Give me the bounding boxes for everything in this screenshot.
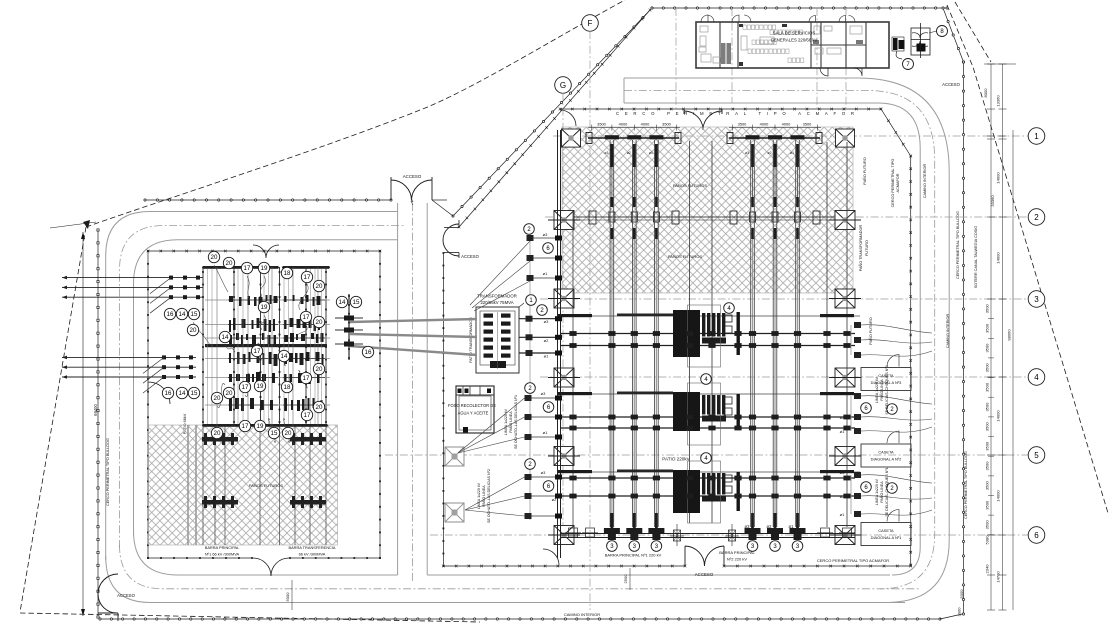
svg-text:PATIO 220kV: PATIO 220kV xyxy=(662,457,690,462)
svg-text:20: 20 xyxy=(190,327,197,334)
svg-text:3500: 3500 xyxy=(985,421,990,431)
building furniture xyxy=(700,26,708,32)
grid bubble 3 xyxy=(1028,291,1045,308)
gantry row2 posts xyxy=(609,212,615,222)
left yard bubbles xyxy=(208,251,219,262)
svg-text:PAÑO FUTURO: PAÑO FUTURO xyxy=(862,157,867,184)
svg-text:ø2: ø2 xyxy=(840,494,845,499)
svg-text:20: 20 xyxy=(214,395,221,402)
svg-text:CERCO PERIMETRAL TIPO ACMAFOR: CERCO PERIMETRAL TIPO ACMAFOR xyxy=(817,558,889,563)
svg-text:ø1: ø1 xyxy=(544,354,549,359)
left yard feeder taps group 1 xyxy=(62,277,203,279)
tower east col y456 xyxy=(835,447,855,466)
svg-text:ø1: ø1 xyxy=(649,151,653,155)
svg-text:17: 17 xyxy=(242,384,249,391)
svg-text:17: 17 xyxy=(303,314,310,321)
tower corridor row5b xyxy=(445,503,464,522)
svg-text:15: 15 xyxy=(191,390,198,397)
road top (north) inner edge xyxy=(624,103,920,575)
dimension top tick xyxy=(984,63,1016,65)
svg-text:4000: 4000 xyxy=(641,122,650,127)
road left ring inner edge xyxy=(134,240,398,535)
gridline row 6 xyxy=(430,534,1028,536)
svg-text:SE DELICIAS–CHOQUES Nº1: SE DELICIAS–CHOQUES Nº1 xyxy=(885,467,889,516)
svg-text:2500: 2500 xyxy=(623,574,628,584)
svg-text:5380: 5380 xyxy=(985,535,990,545)
tower east col y377.5 xyxy=(835,368,855,387)
svg-text:FOSO RECOLECTOR DE: FOSO RECOLECTOR DE xyxy=(448,403,496,408)
left yard hatch equipment row 1 xyxy=(202,437,238,442)
bubbles 3 under bays xyxy=(607,541,618,552)
svg-text:ACCESO: ACCESO xyxy=(461,254,479,259)
road middle corridor east edge xyxy=(426,203,428,575)
svg-text:3500: 3500 xyxy=(985,402,990,412)
svg-text:3500: 3500 xyxy=(597,122,606,127)
gantry row1 group B xyxy=(729,137,820,139)
grid bubble 4 xyxy=(1028,369,1045,386)
svg-text:20: 20 xyxy=(316,283,323,290)
bus node ticks row 455 xyxy=(608,476,615,481)
svg-text:SE DELICIAS–CHOQUES Nº3: SE DELICIAS–CHOQUES Nº3 xyxy=(885,365,889,414)
property boundary dashed bottom xyxy=(20,613,480,622)
svg-text:17: 17 xyxy=(244,265,251,272)
gate ACCESO west entrance xyxy=(98,574,118,613)
fence left yard (x markers) xyxy=(148,250,380,252)
svg-text:33360: 33360 xyxy=(990,195,995,207)
transformer LV taps to bus xyxy=(519,318,556,320)
grid bubble 2 xyxy=(1028,209,1045,226)
diameter row at grid 455 tie line xyxy=(558,471,860,473)
svg-text:CERCO PERIMETRAL TIPO BULLDOG: CERCO PERIMETRAL TIPO BULLDOG xyxy=(106,438,110,506)
feeder markers right group 2 xyxy=(854,472,861,478)
fence northeast diagonal (circles) xyxy=(453,8,652,216)
property boundary dashed northeast xyxy=(947,5,1108,513)
svg-text:16: 16 xyxy=(365,349,372,356)
svg-text:ø3: ø3 xyxy=(544,319,549,324)
left yard equipment rows xyxy=(205,299,330,301)
svg-text:ø2: ø2 xyxy=(627,151,631,155)
diameter row at grid 299 tie line xyxy=(558,315,860,317)
tower west col y377.5 xyxy=(554,368,574,387)
grid bubble 6 xyxy=(1028,527,1045,544)
svg-text:BARRA PRINCIPAL Nº1 220 kV: BARRA PRINCIPAL Nº1 220 kV xyxy=(605,553,662,558)
svg-text:ø3: ø3 xyxy=(840,391,845,396)
svg-text:17: 17 xyxy=(254,348,261,355)
svg-text:F: F xyxy=(588,19,593,28)
svg-text:14: 14 xyxy=(179,390,186,397)
svg-text:PAÑO LINEA: PAÑO LINEA xyxy=(508,411,513,433)
lattice column symbols row6 xyxy=(674,530,681,541)
dimension line right middle xyxy=(1002,64,1004,610)
left yard top bus xyxy=(203,266,278,269)
property boundary dashed west xyxy=(20,227,86,612)
svg-text:5000: 5000 xyxy=(285,592,290,602)
svg-text:LINEA 1x220 kV: LINEA 1x220 kV xyxy=(875,478,879,505)
building battery banks xyxy=(721,43,726,64)
foso top cells xyxy=(456,394,494,396)
fence south (circles) xyxy=(100,618,940,620)
left yard minor columns xyxy=(216,267,218,426)
svg-text:3500: 3500 xyxy=(803,122,812,127)
fence west (squares) xyxy=(97,230,99,617)
diameter row buses y333.5 345.5 xyxy=(560,333,855,335)
svg-text:14: 14 xyxy=(179,311,186,318)
svg-text:14: 14 xyxy=(339,299,346,306)
bubble 4 row3 xyxy=(724,303,735,314)
cluster outline row 455 xyxy=(688,461,721,523)
tower row1 west xyxy=(562,129,581,147)
tower corridor row5 xyxy=(445,447,464,466)
feeder markers right group 0 xyxy=(854,322,861,328)
bottom bay gantry bars xyxy=(611,513,614,538)
tower west col y298.5 xyxy=(554,289,574,308)
left yard middle heavy bus xyxy=(205,344,327,347)
svg-text:ø3: ø3 xyxy=(541,470,546,475)
svg-text:8000: 8000 xyxy=(983,88,988,98)
feeder group lower squares xyxy=(525,474,532,480)
tower west col y535 xyxy=(554,526,574,545)
svg-text:ACCESO: ACCESO xyxy=(117,593,135,598)
svg-text:3500: 3500 xyxy=(985,343,990,353)
svg-text:ø1: ø1 xyxy=(789,524,795,529)
svg-text:3500: 3500 xyxy=(985,500,990,510)
aux vertical lines right yard xyxy=(689,141,691,523)
svg-text:ø3: ø3 xyxy=(840,470,845,475)
svg-text:PAÑO LINEA: PAÑO LINEA xyxy=(879,379,884,401)
equipment symbol 8 xyxy=(911,28,930,55)
bubble 4 row4 xyxy=(701,374,712,385)
svg-text:3000: 3000 xyxy=(957,607,962,617)
hatch panos futuros right yard xyxy=(562,127,853,293)
svg-text:ACCESO: ACCESO xyxy=(942,82,960,87)
gate left yard top xyxy=(253,245,279,258)
svg-text:SE OCHATO–LAS DELICIAS Nº1: SE OCHATO–LAS DELICIAS Nº1 xyxy=(514,395,518,449)
gate right yard bottom ACCESO xyxy=(685,546,724,566)
svg-text:220/66kV 75MVA: 220/66kV 75MVA xyxy=(480,300,513,305)
svg-text:19: 19 xyxy=(261,265,268,272)
svg-text:4: 4 xyxy=(1034,373,1039,382)
property boundary dashed northwest diagonal xyxy=(86,0,625,227)
svg-text:GENERALES 220/66 kV: GENERALES 220/66 kV xyxy=(771,38,818,43)
gate ACCESO top of corridor xyxy=(391,180,432,201)
foso recolector box xyxy=(456,386,494,433)
diameter row at grid 377 tie line xyxy=(558,393,860,395)
svg-text:14: 14 xyxy=(222,334,229,341)
svg-text:20: 20 xyxy=(285,430,292,437)
gridline row 2 xyxy=(545,216,1028,218)
fence north (circles) xyxy=(652,7,947,9)
bottom small posts xyxy=(569,528,578,537)
svg-text:14700: 14700 xyxy=(996,571,1001,583)
bay vertical conductors xyxy=(609,140,611,527)
svg-text:PAÑOS FUTUROS: PAÑOS FUTUROS xyxy=(249,483,283,488)
dimension ticks bays group B xyxy=(729,127,821,129)
fence north of left yard (circles) xyxy=(145,199,391,201)
left yard leader squiggles xyxy=(214,265,228,292)
tower west col y456 xyxy=(554,447,574,466)
svg-text:ø3: ø3 xyxy=(604,151,608,155)
diameter row buses y478 496 xyxy=(560,477,855,479)
diameter tie segments row 299 xyxy=(558,314,592,317)
svg-text:ø3: ø3 xyxy=(745,524,751,529)
svg-text:14000: 14000 xyxy=(996,410,1001,422)
svg-text:17: 17 xyxy=(242,423,249,430)
gate left yard bottom xyxy=(253,558,289,576)
svg-text:66 kV /300MVA: 66 kV /300MVA xyxy=(299,552,326,557)
gridline vertical C xyxy=(816,8,818,110)
gridline G vertical xyxy=(562,93,564,540)
bubble 8 xyxy=(937,26,948,37)
dimension line right inner xyxy=(990,64,992,610)
svg-text:19: 19 xyxy=(257,423,264,430)
svg-text:PAÑO TRANSFORMADOR: PAÑO TRANSFORMADOR xyxy=(858,225,863,272)
road bottom centerline xyxy=(120,545,921,589)
svg-text:17: 17 xyxy=(304,274,311,281)
svg-text:3500: 3500 xyxy=(985,363,990,373)
bus node ticks row 377 xyxy=(608,415,615,420)
building interior wall xyxy=(811,44,866,46)
building chair rows xyxy=(743,25,746,30)
dimension 5000 bottom center xyxy=(291,580,293,610)
gridline F vertical xyxy=(589,31,591,610)
svg-text:FUTURO: FUTURO xyxy=(865,240,869,256)
diameter tie segments row 377 xyxy=(558,392,592,395)
svg-text:3500: 3500 xyxy=(985,323,990,333)
svg-text:5: 5 xyxy=(1034,451,1039,460)
road top/right centerline xyxy=(624,91,935,589)
svg-text:CERCO PERIMETRAL TIPO ACMAF: CERCO PERIMETRAL TIPO ACMAFOR xyxy=(616,111,854,116)
svg-text:3: 3 xyxy=(1034,295,1039,304)
svg-text:BARRA PRINCIPAL: BARRA PRINCIPAL xyxy=(719,550,755,555)
svg-text:ø1: ø1 xyxy=(543,271,548,276)
svg-text:20: 20 xyxy=(316,319,323,326)
svg-text:SE OCHATO–LAS DELICIAS Nº2: SE OCHATO–LAS DELICIAS Nº2 xyxy=(487,469,491,523)
svg-text:14000: 14000 xyxy=(996,172,1001,184)
feeder group upper-left squares xyxy=(527,235,534,241)
svg-text:CAMINO INTERIOR: CAMINO INTERIOR xyxy=(923,164,927,199)
svg-text:3500: 3500 xyxy=(662,122,671,127)
svg-text:LINEA 1x220 kV: LINEA 1x220 kV xyxy=(477,482,481,509)
svg-text:20: 20 xyxy=(316,404,323,411)
road middle corridor west edge xyxy=(397,203,399,575)
svg-text:BARRA TRANSFERENCIA: BARRA TRANSFERENCIA xyxy=(288,545,335,550)
left yard feeder taps group 2 xyxy=(62,356,196,358)
bottom busbar lines xyxy=(560,533,855,535)
svg-text:BARRA PRINCIPAL: BARRA PRINCIPAL xyxy=(205,545,240,550)
svg-text:3500: 3500 xyxy=(985,480,990,490)
svg-text:14000: 14000 xyxy=(996,490,1001,502)
svg-text:ø1: ø1 xyxy=(543,430,548,435)
building small black fittings xyxy=(739,24,743,27)
road middle corridor centerline xyxy=(411,203,413,582)
road left ring centerline xyxy=(120,226,405,549)
gridline row 1 xyxy=(553,135,1028,137)
tower west col y220 xyxy=(554,211,574,230)
svg-text:20: 20 xyxy=(226,390,233,397)
svg-text:5000: 5000 xyxy=(959,589,964,599)
svg-text:ACMAFOR: ACMAFOR xyxy=(896,173,900,192)
svg-text:ø3: ø3 xyxy=(543,232,548,237)
svg-text:CERCO PERIMETRAL TIPO: CERCO PERIMETRAL TIPO xyxy=(891,159,895,208)
svg-text:PAÑO LINEA: PAÑO LINEA xyxy=(481,485,486,507)
svg-text:6: 6 xyxy=(1034,531,1039,540)
svg-text:2340: 2340 xyxy=(985,564,990,574)
gate right yard top main xyxy=(684,111,722,130)
cluster outline row 299 xyxy=(688,305,721,367)
diameter row buses y417 428 xyxy=(560,416,855,418)
transformer outer box xyxy=(476,307,519,373)
svg-text:ø2: ø2 xyxy=(767,524,773,529)
svg-text:CASETA: CASETA xyxy=(878,528,894,533)
gridline vertical D xyxy=(731,8,733,103)
fence east xyxy=(943,8,964,62)
gridline vertical B xyxy=(845,8,847,109)
gridline row 3 xyxy=(540,298,1028,300)
svg-text:SOTERR CANAL TALWEGIA COSIG: SOTERR CANAL TALWEGIA COSIG xyxy=(974,226,978,289)
svg-text:PAÑO FUTURO: PAÑO FUTURO xyxy=(868,317,873,344)
building sala de servicios outline xyxy=(696,22,889,68)
hatch panos futuros left yard xyxy=(149,425,338,545)
svg-text:AGUA Y ACEITE: AGUA Y ACEITE xyxy=(458,411,489,416)
svg-text:DIAGONAL A Nº2: DIAGONAL A Nº2 xyxy=(871,457,902,462)
caseta diagonal Nº3 xyxy=(861,368,911,391)
bubble 1 transformer xyxy=(526,295,537,306)
svg-text:17: 17 xyxy=(304,412,311,419)
aux vertical 573 xyxy=(572,211,574,527)
tower row1 east xyxy=(836,129,855,147)
svg-text:LINEA 1x220 kV: LINEA 1x220 kV xyxy=(504,408,508,435)
svg-text:20: 20 xyxy=(214,430,221,437)
svg-text:ø2: ø2 xyxy=(840,415,845,420)
svg-text:ACCESO: ACCESO xyxy=(403,174,422,179)
equipment cluster row 299 xyxy=(673,310,700,357)
svg-text:CERCO PERIMETRAL TIPO BULLDOG: CERCO PERIMETRAL TIPO BULLDOG xyxy=(964,451,968,519)
svg-text:2: 2 xyxy=(1034,213,1039,222)
left yard verticals through hatch xyxy=(202,425,204,545)
svg-text:18: 18 xyxy=(284,384,291,391)
caseta diagonal Nº2 xyxy=(861,444,911,467)
bubble 7 xyxy=(903,59,914,70)
svg-text:ø2: ø2 xyxy=(768,151,772,155)
transformer internals xyxy=(484,314,494,318)
svg-text:DIAGONAL A Nº1: DIAGONAL A Nº1 xyxy=(871,535,902,540)
svg-text:19: 19 xyxy=(257,383,264,390)
road top (north) outer edge xyxy=(624,78,949,603)
svg-text:17: 17 xyxy=(303,375,310,382)
svg-text:15: 15 xyxy=(271,430,278,437)
dimension line right outer xyxy=(1012,130,1014,610)
road left ring outer edge xyxy=(106,212,398,561)
svg-text:14: 14 xyxy=(281,353,288,360)
dimension label 69400 west xyxy=(82,232,84,616)
svg-text:3500: 3500 xyxy=(985,520,990,530)
left yard columns xyxy=(202,267,204,426)
left yard bottom bus xyxy=(203,424,327,427)
svg-text:13360: 13360 xyxy=(996,95,1001,107)
svg-text:Nº2 220 kV: Nº2 220 kV xyxy=(727,557,747,562)
svg-text:3500: 3500 xyxy=(738,122,747,127)
road bottom inner edge xyxy=(134,531,891,575)
gate right yard bottom small west xyxy=(543,549,559,565)
building door arcs top xyxy=(701,15,714,22)
svg-text:Nº1 66 kV /300MVA: Nº1 66 kV /300MVA xyxy=(205,552,240,557)
tower east col y220 xyxy=(835,211,855,230)
gridline row 5 xyxy=(385,454,1028,456)
svg-text:ACCESO: ACCESO xyxy=(695,572,714,577)
svg-text:CAMINO INTERIOR: CAMINO INTERIOR xyxy=(946,314,950,349)
svg-text:4000: 4000 xyxy=(619,122,628,127)
road bottom outer edge xyxy=(106,556,905,603)
svg-text:TRANSFORMADOR: TRANSFORMADOR xyxy=(477,294,517,299)
cluster outline row 377 xyxy=(688,383,721,445)
left yard cross conductors vertical fine xyxy=(207,269,209,424)
fence northeast diagonal inner (x) xyxy=(459,10,650,227)
bubble 2 transformer xyxy=(537,305,548,316)
svg-text:PAÑOS FUTUROS: PAÑOS FUTUROS xyxy=(673,183,707,188)
gate right yard top small xyxy=(560,110,576,126)
gantry row2 beam xyxy=(565,216,853,218)
svg-text:CASETA: CASETA xyxy=(878,450,894,455)
building door arcs bottom xyxy=(820,68,828,76)
feeder group mid squares xyxy=(525,395,532,401)
svg-text:3500: 3500 xyxy=(985,441,990,451)
gantry row1 group A xyxy=(588,137,679,139)
building partitions xyxy=(719,22,721,68)
equipment symbol 7 xyxy=(893,38,898,50)
svg-text:LINEA 1x220 kV: LINEA 1x220 kV xyxy=(875,376,879,403)
svg-text:14000: 14000 xyxy=(996,252,1001,264)
gridline vertical E xyxy=(675,8,677,109)
svg-text:ø1: ø1 xyxy=(790,151,794,155)
diameter tie segments row 455 xyxy=(558,470,592,473)
svg-text:3500: 3500 xyxy=(985,304,990,314)
left yard right feeder structure xyxy=(348,294,350,360)
mid vertical gray feeders column xyxy=(529,228,531,520)
caseta diagonal Nº1 xyxy=(861,523,911,546)
svg-text:18: 18 xyxy=(284,270,291,277)
svg-text:16: 16 xyxy=(165,390,172,397)
dimension ticks bays group A xyxy=(588,127,680,129)
boundary corner marker xyxy=(83,220,90,229)
svg-text:PAÑOS FUTUROS: PAÑOS FUTUROS xyxy=(668,254,702,259)
tower east col y298.5 xyxy=(835,289,855,308)
gantry row1 bay posts xyxy=(605,135,619,139)
gate left yard west xyxy=(148,382,170,404)
svg-text:ø2: ø2 xyxy=(552,497,557,502)
svg-text:ø1: ø1 xyxy=(840,512,845,517)
svg-text:20: 20 xyxy=(211,254,218,261)
svg-text:ø3: ø3 xyxy=(541,391,546,396)
svg-text:19: 19 xyxy=(261,304,268,311)
svg-text:ø3: ø3 xyxy=(745,151,749,155)
grid bubble 5 xyxy=(1028,447,1045,464)
gridline row 4 xyxy=(540,376,1028,378)
left yard hatch equipment row 2 xyxy=(202,500,238,505)
svg-text:4000: 4000 xyxy=(782,122,791,127)
svg-text:CERCO PERIMETRAL TIPO BULLDOG: CERCO PERIMETRAL TIPO BULLDOG xyxy=(956,211,960,279)
feeder markers right group 1 xyxy=(854,393,861,399)
left bus pair vertical xyxy=(557,130,559,558)
svg-text:3500: 3500 xyxy=(985,382,990,392)
svg-text:ø2: ø2 xyxy=(544,338,549,343)
svg-text:PAÑO LINEA: PAÑO LINEA xyxy=(879,481,884,503)
tower east col y535 xyxy=(835,526,855,545)
dimension 2500 bottom xyxy=(629,568,631,590)
transformer HV connections gray xyxy=(350,319,477,322)
grid bubble 1 xyxy=(1028,128,1045,145)
grid bubble F xyxy=(582,15,599,32)
svg-text:15: 15 xyxy=(353,299,360,306)
